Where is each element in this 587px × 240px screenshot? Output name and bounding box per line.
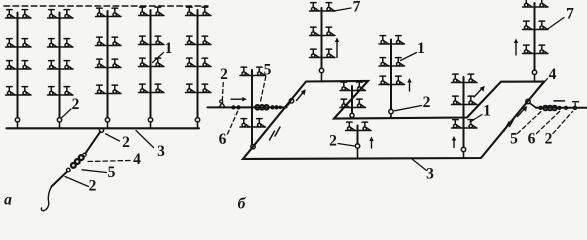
label 6 dashed leader r bbox=[537, 111, 561, 134]
flange circle 2 inlet bbox=[237, 106, 240, 109]
tap pair B-St1b floor2 bbox=[452, 96, 478, 104]
svg-text:2: 2 bbox=[122, 134, 130, 151]
water meter (4) on inlet bbox=[71, 155, 84, 168]
riser B-St7b pipe bbox=[534, 3, 536, 70]
svg-text:2: 2 bbox=[220, 66, 228, 83]
tap pair riser St2 floor 2 bbox=[48, 39, 74, 47]
inlet pipe 2 bbox=[536, 107, 587, 109]
tap pair B-St1 upper bbox=[240, 67, 266, 75]
up arrow beside B-St7a bbox=[336, 42, 338, 58]
hatch mark 2 right slant bbox=[510, 118, 515, 127]
small flange circle above water meter bbox=[83, 153, 86, 156]
tap pair B-St7b floor2 bbox=[523, 21, 549, 29]
valve at base of riser St2 bbox=[57, 118, 61, 122]
stem B-St1b to ring bbox=[463, 152, 465, 157]
label 7 right leader bbox=[547, 18, 564, 30]
tap pair B-St7b floor1 bbox=[523, 0, 549, 7]
label 2 street leader bbox=[65, 177, 89, 187]
junction node on right slant bbox=[526, 99, 530, 103]
label 5 dashed leader bbox=[261, 77, 266, 102]
tap pair riser St5 floor 1 bbox=[186, 7, 212, 15]
up arrow beside B-St1m bbox=[409, 82, 411, 91]
riser B-St1b pipe bbox=[463, 77, 465, 147]
flange circle 1 inlet bbox=[232, 106, 235, 109]
svg-text:2: 2 bbox=[423, 94, 431, 111]
label 4 leader bbox=[541, 79, 548, 87]
dashed attic line bbox=[4, 5, 208, 7]
valve at base of B-St2b bbox=[355, 144, 359, 148]
svg-text:1: 1 bbox=[165, 40, 173, 57]
stem riser St5 to main bbox=[197, 122, 199, 128]
flow arrow on right slant bbox=[518, 109, 525, 117]
riser St5 pipe bbox=[197, 10, 199, 118]
riser St2 pipe bbox=[59, 13, 61, 118]
svg-text:4: 4 bbox=[549, 66, 557, 83]
inlet tail to street main bbox=[41, 187, 51, 211]
riser B-St7a pipe bbox=[321, 8, 323, 68]
stem B-St1m to ring bbox=[390, 114, 392, 119]
tap pair riser St3 floor 4 bbox=[96, 85, 122, 93]
label 5 dashed leader r bbox=[518, 112, 542, 134]
riser B-St1m pipe bbox=[390, 40, 392, 110]
tap pair riser St4 floor 2 bbox=[139, 36, 165, 44]
label 1 mid leader bbox=[401, 53, 417, 61]
flange circle 1 inlet-2 bbox=[539, 106, 542, 109]
flange circle 3 inlet bbox=[271, 106, 274, 109]
hatch mark 2 left slant bbox=[275, 127, 280, 136]
riser St3 pipe bbox=[107, 11, 109, 118]
label 5 leader bbox=[82, 170, 107, 173]
hatch mark 1 right slant bbox=[504, 122, 509, 131]
valve at base of B-St1m bbox=[389, 109, 393, 113]
svg-text:2: 2 bbox=[89, 178, 97, 195]
tap pair riser St2 floor 4 bbox=[48, 87, 74, 95]
tap pair B-St7b floor3 bbox=[523, 45, 549, 53]
label 2 leader bbox=[62, 109, 72, 118]
svg-text:1: 1 bbox=[417, 40, 425, 57]
water meter on inlet 1 bbox=[255, 105, 269, 110]
tap pair riser St5 floor 2 bbox=[186, 36, 212, 44]
tap pair B-St1m floor3 bbox=[379, 76, 405, 84]
riser St1 pipe bbox=[17, 13, 19, 118]
flow arrow on step diagonal bbox=[474, 89, 482, 98]
small flange circle below water meter bbox=[67, 168, 71, 172]
label 3 leader bbox=[136, 131, 154, 148]
connector from right junction bbox=[530, 103, 536, 108]
svg-text:3: 3 bbox=[157, 143, 165, 160]
tap pair B-St7a floor1 bbox=[310, 3, 336, 11]
valve at base of B-St2a bbox=[350, 113, 354, 117]
riser B-St2b pipe bbox=[357, 126, 359, 144]
svg-text:а: а bbox=[4, 192, 12, 209]
svg-text:5: 5 bbox=[264, 62, 272, 79]
svg-text:5: 5 bbox=[510, 131, 518, 148]
gate valve on inlet 1 bbox=[219, 103, 225, 108]
flow arrow on left slant bbox=[297, 92, 304, 101]
up arrow beside B-St7b bbox=[515, 43, 517, 56]
svg-text:7: 7 bbox=[566, 6, 574, 23]
tap pair riser St1 floor 3 bbox=[6, 61, 32, 69]
label 1 leader bbox=[153, 53, 164, 63]
tap pair B-St2a upper bbox=[340, 82, 366, 90]
svg-text:5: 5 bbox=[108, 164, 116, 181]
riser St4 pipe bbox=[150, 10, 152, 118]
tap pair riser St4 floor 1 bbox=[139, 7, 165, 15]
tap pair B-St2a lower bbox=[340, 99, 366, 107]
stem riser St1 to main bbox=[17, 122, 19, 128]
tap pair riser St2 floor 3 bbox=[48, 61, 74, 69]
tap pair riser St3 floor 1 bbox=[96, 8, 122, 16]
tap pair B-St1b floor1 bbox=[452, 74, 478, 82]
label 2 dashed leader r bbox=[553, 112, 573, 134]
label 4 dashed leader bbox=[88, 161, 130, 162]
tap pair B-St7a floor3 bbox=[310, 49, 336, 57]
ring main loop (3) bbox=[243, 81, 544, 159]
up arrow head B-St7b bbox=[514, 39, 518, 44]
up arrow head B-St1m bbox=[407, 78, 411, 83]
junction node on main bbox=[99, 128, 103, 132]
riser B-St2a pipe bbox=[351, 86, 353, 113]
inlet pipe 1 bbox=[208, 106, 287, 108]
svg-text:2: 2 bbox=[545, 131, 553, 148]
tap pair riser St2 floor 1 bbox=[48, 10, 74, 18]
svg-text:4: 4 bbox=[133, 151, 141, 168]
tap pair B-St1 lower bbox=[240, 119, 266, 127]
label 2 dashed leader bbox=[222, 83, 223, 101]
flow arrow head right slant bbox=[522, 106, 527, 112]
inlet pipe lower segment bbox=[52, 172, 67, 187]
stem riser St4 to main bbox=[150, 122, 152, 128]
svg-text:2: 2 bbox=[329, 133, 337, 150]
tap pair B-St1m floor2 bbox=[379, 58, 405, 66]
svg-text:6: 6 bbox=[219, 131, 227, 148]
tap pair B-St1m floor1 bbox=[379, 36, 405, 44]
flow dash above inlet 2 bbox=[554, 100, 565, 102]
label 7 left leader bbox=[334, 8, 351, 11]
flange circle 5 inlet bbox=[279, 106, 281, 108]
tap pair riser St1 floor 4 bbox=[6, 87, 32, 95]
flow arrow above inlet 1 bbox=[231, 98, 244, 100]
valve at base of B-St1 bbox=[251, 145, 255, 149]
gate valve handwheel bbox=[220, 100, 223, 103]
svg-text:б: б bbox=[238, 196, 247, 213]
stem riser St2 to main bbox=[59, 122, 61, 128]
riser B-St1 pipe bbox=[251, 70, 253, 145]
stem riser St3 to main bbox=[107, 122, 109, 128]
svg-text:3: 3 bbox=[426, 166, 434, 183]
valve at base of riser St5 bbox=[195, 118, 199, 122]
svg-text:1: 1 bbox=[483, 103, 491, 120]
stem B-St7a to ring bbox=[321, 73, 323, 82]
up arrow head B-St1b bbox=[452, 136, 456, 141]
up arrow head B-St2b bbox=[369, 137, 373, 142]
tap pair riser St1 floor 2 bbox=[6, 39, 32, 47]
connector to ring junction bbox=[286, 103, 291, 108]
label 2 mid leader bbox=[395, 106, 422, 111]
valve at base of B-St7b bbox=[532, 70, 536, 74]
tap pair riser St5 floor 4 bbox=[186, 84, 212, 92]
up arrow head B-St7a bbox=[335, 38, 339, 43]
tap pair riser St3 floor 3 bbox=[96, 59, 122, 67]
flange circle 4 inlet bbox=[275, 106, 278, 109]
junction node on left slant bbox=[289, 99, 293, 103]
tap pair riser St4 floor 4 bbox=[139, 84, 165, 92]
flange circle 2 inlet-2 bbox=[558, 106, 561, 109]
tap pair riser St3 floor 2 bbox=[96, 37, 122, 45]
svg-text:6: 6 bbox=[528, 131, 536, 148]
stem B-St2a to ring bbox=[351, 117, 353, 118]
tap pair B-St7a floor2 bbox=[310, 27, 336, 35]
flow arrow head left slant bbox=[301, 89, 306, 95]
tap pair riser St5 floor 3 bbox=[186, 58, 212, 66]
svg-text:7: 7 bbox=[353, 0, 361, 16]
flow arrow head step diagonal bbox=[480, 86, 485, 92]
valve at base of B-St1b bbox=[461, 147, 465, 151]
label 2 inlet leader bbox=[106, 134, 120, 141]
water meter on inlet 2 bbox=[543, 106, 557, 111]
valve at base of B-St7a bbox=[319, 68, 323, 72]
tap pair riser St4 floor 3 bbox=[139, 58, 165, 66]
tap symbol on inlet 2 bbox=[573, 102, 579, 110]
valve at base of riser St1 bbox=[15, 118, 19, 122]
hatch mark 1 left slant bbox=[270, 131, 275, 140]
tap pair B-St1b floor3 bbox=[452, 120, 478, 128]
label 3 ring leader bbox=[412, 159, 427, 171]
flange circle 3 inlet-2 bbox=[565, 106, 568, 109]
label 2 front leader bbox=[338, 144, 355, 147]
up arrow beside B-St1b bbox=[453, 140, 455, 148]
flow arrow head inlet 1 bbox=[242, 97, 247, 101]
up arrow beside B-St2b bbox=[371, 141, 373, 149]
label 1 right leader bbox=[470, 115, 482, 123]
tap pair B-St2b bbox=[346, 122, 372, 130]
valve at base of riser St4 bbox=[148, 118, 152, 122]
svg-text:2: 2 bbox=[72, 96, 80, 113]
stem B-St2b to ring bbox=[357, 148, 359, 158]
tap pair riser St1 floor 1 bbox=[6, 10, 32, 18]
main distribution pipe (3) bbox=[7, 127, 200, 129]
label 6 dashed leader bbox=[228, 111, 239, 135]
inlet pipe upper segment bbox=[86, 132, 101, 153]
stem B-St7b to ring bbox=[534, 75, 536, 82]
valve at base of riser St3 bbox=[105, 118, 109, 122]
